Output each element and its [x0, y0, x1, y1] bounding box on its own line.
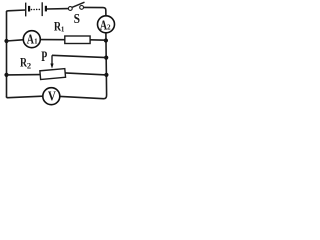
label R1: [54, 20, 65, 34]
label P: [41, 49, 47, 65]
node: junction right slider row: [104, 56, 108, 60]
svg-text:2: 2: [107, 24, 111, 32]
svg-text:1: 1: [61, 26, 65, 34]
svg-text:V: V: [48, 89, 56, 104]
wire: top left segment to battery: [7, 10, 26, 12]
wire: left vertical: [6, 12, 8, 98]
wire: A1 to R1: [41, 39, 65, 41]
label R2: [20, 54, 31, 70]
wire: right vertical from A2 to bottom corner: [60, 33, 106, 99]
wire: left to ammeter A1: [7, 40, 23, 41]
resistor R1: [65, 36, 90, 44]
switch S: [68, 2, 84, 10]
wire: battery to switch: [47, 8, 68, 10]
svg-text:A: A: [27, 31, 34, 46]
svg-text:1: 1: [34, 38, 38, 46]
svg-text:2: 2: [27, 61, 31, 71]
wire: left to rheostat R2: [7, 74, 41, 76]
slider arrow of rheostat: [50, 55, 53, 69]
label S: [74, 11, 81, 26]
wire: switch to top right corner, down to A2: [84, 7, 106, 15]
battery cells: [26, 2, 47, 16]
wire: bottom left corner to voltmeter: [7, 96, 43, 98]
node: junction left R2 row: [4, 73, 8, 77]
node: junction left R1 row: [4, 39, 8, 43]
rheostat R2 body: [40, 69, 66, 80]
ammeter A2: [98, 16, 115, 33]
ammeter A1: [23, 31, 40, 48]
node: junction right R1 row: [104, 38, 108, 42]
voltmeter V: [43, 88, 60, 105]
node: junction right R2 row: [104, 73, 108, 77]
svg-text:P: P: [41, 49, 47, 65]
wire: R1 to right vertical: [90, 39, 106, 41]
wire: rheostat to right vertical: [65, 73, 106, 75]
svg-text:S: S: [74, 11, 81, 26]
wire: slider to right vertical: [52, 55, 106, 57]
